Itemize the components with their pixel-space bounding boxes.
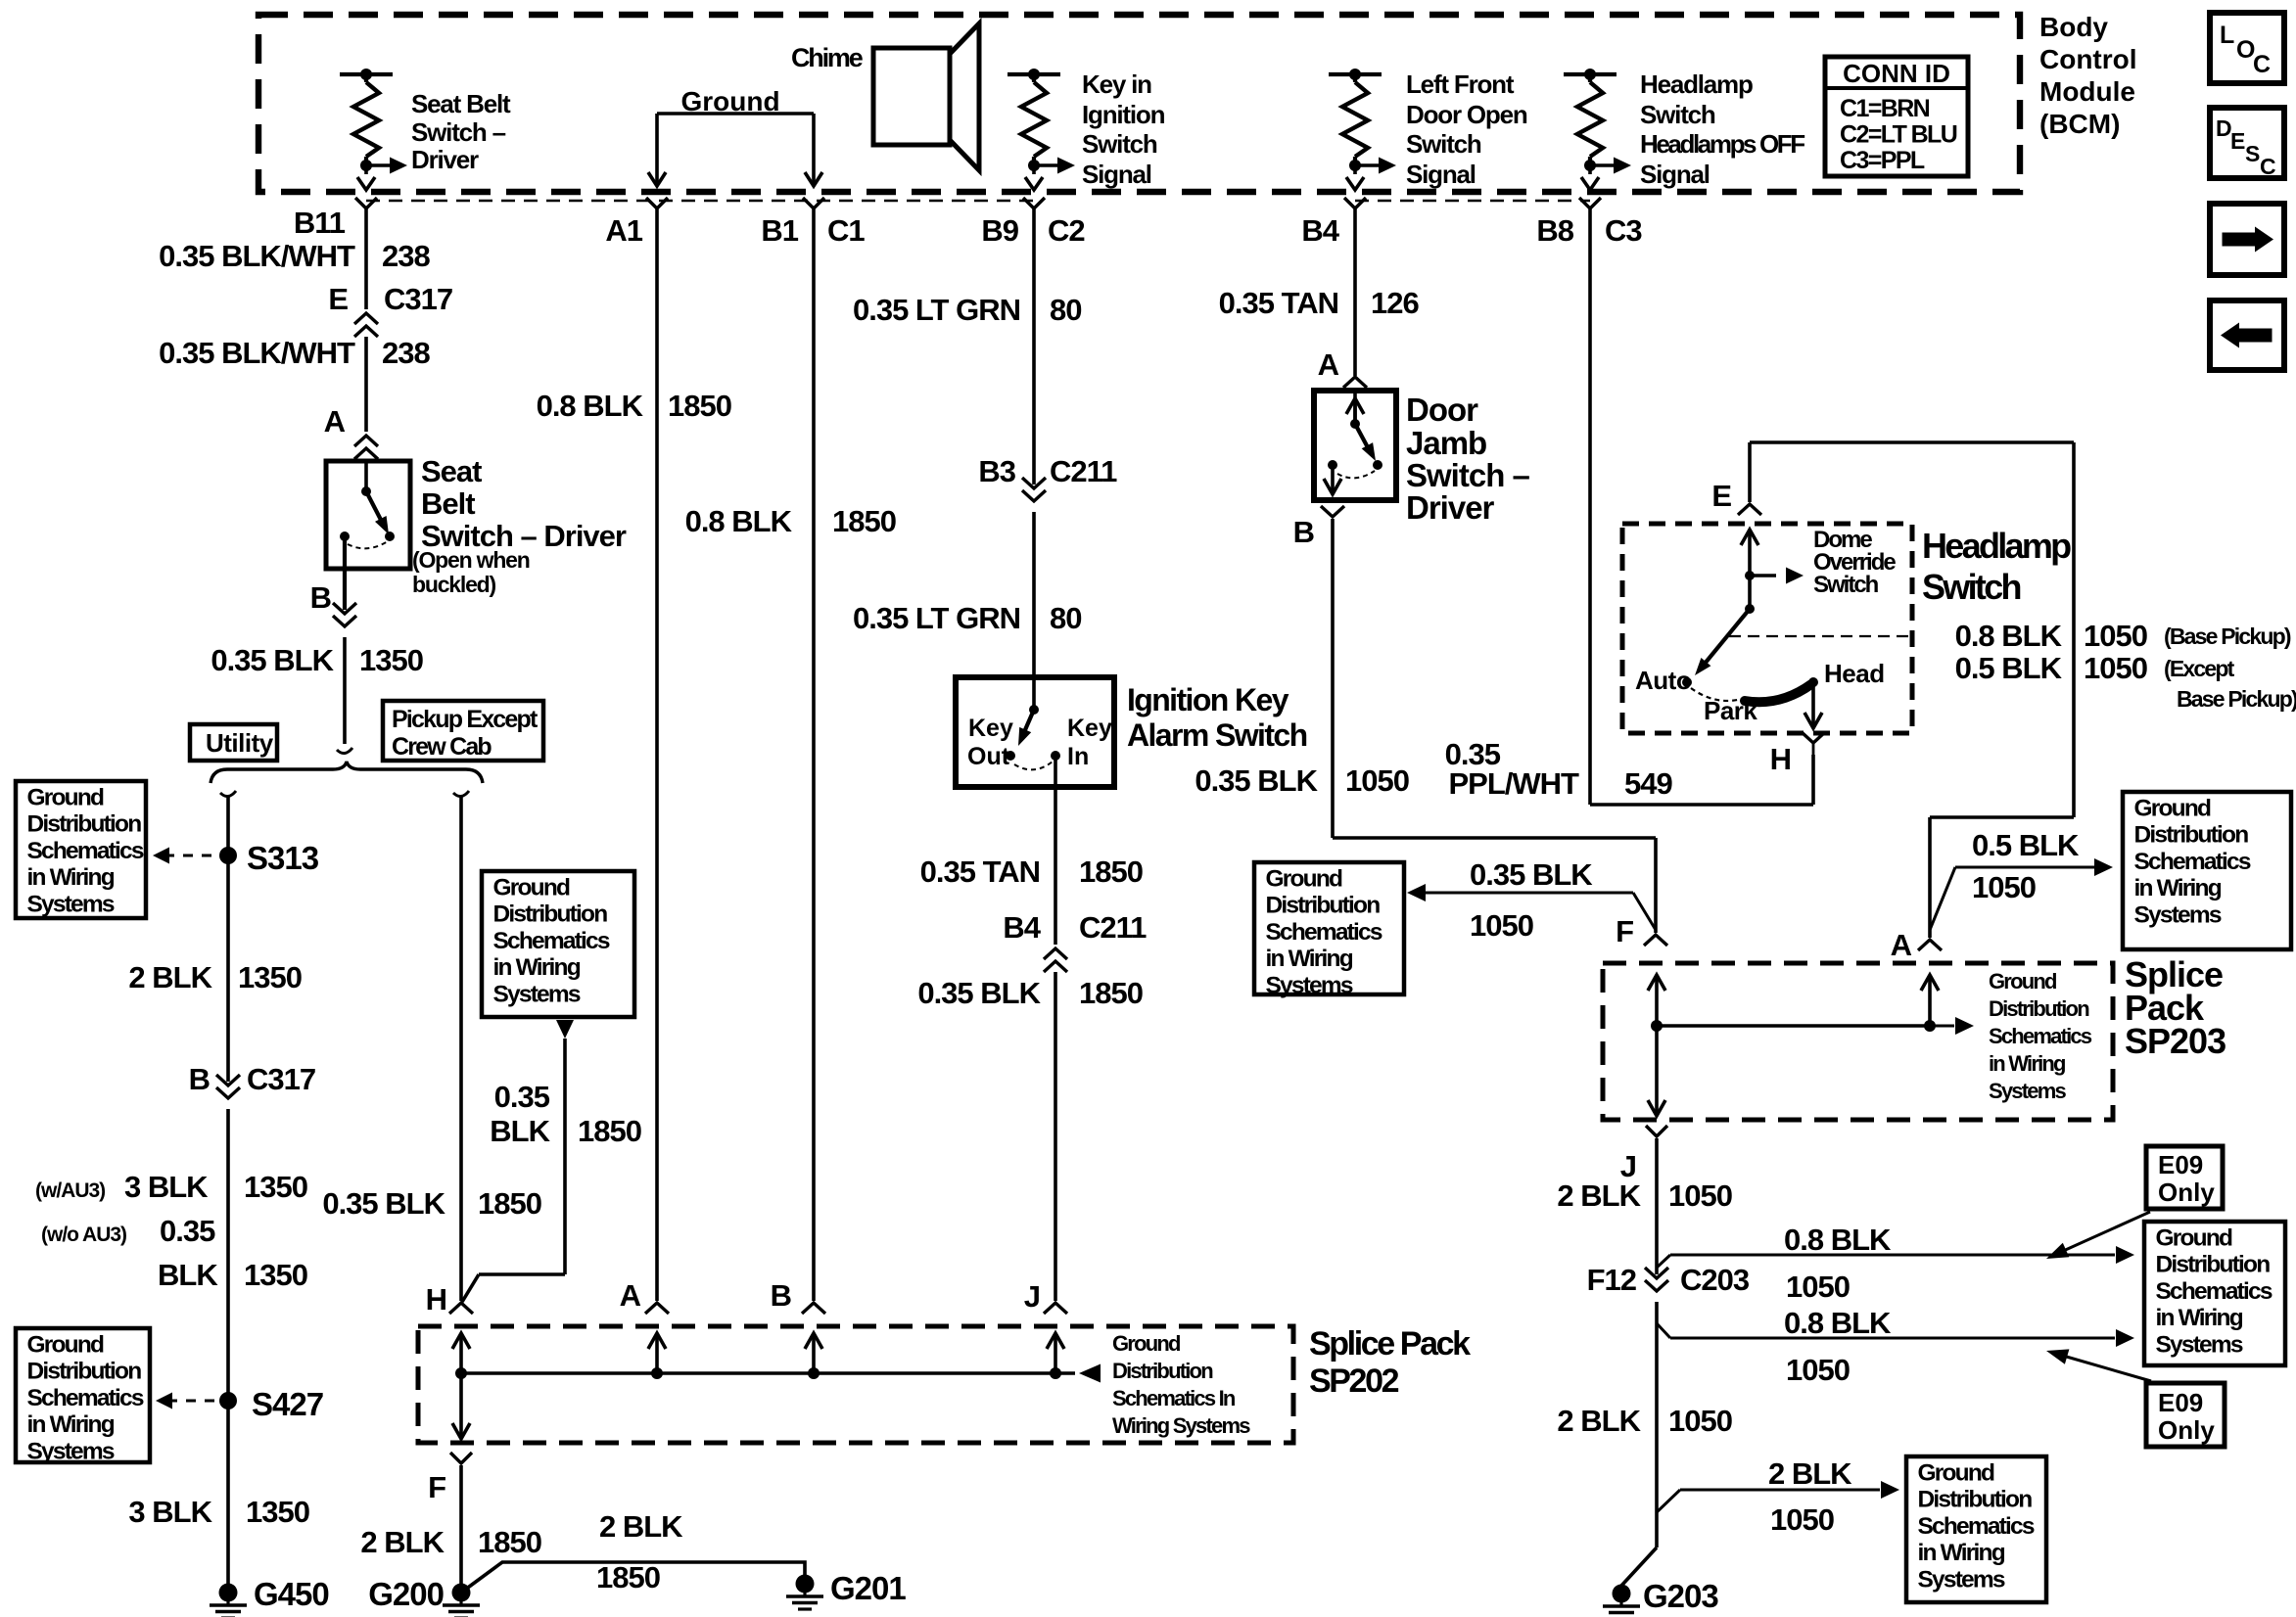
svg-text:E09: E09 <box>2158 1388 2203 1417</box>
E09 Only tag box (upper) <box>2146 1146 2223 1209</box>
SP202 pin H connector chevron <box>449 1303 473 1314</box>
svg-text:E: E <box>328 282 348 316</box>
svg-text:A1: A1 <box>605 213 642 248</box>
E09 Only tag box (lower) <box>2146 1383 2225 1447</box>
svg-text:Distribution: Distribution <box>1112 1359 1213 1383</box>
svg-text:Control: Control <box>2039 44 2137 74</box>
chime speaker symbol <box>873 48 950 145</box>
svg-text:2 BLK: 2 BLK <box>1557 1404 1641 1438</box>
svg-text:Signal: Signal <box>1082 160 1151 189</box>
svg-text:1350: 1350 <box>244 1170 307 1204</box>
svg-text:1050: 1050 <box>1786 1270 1850 1304</box>
svg-text:Switch: Switch <box>1082 129 1157 159</box>
ground G201 <box>796 1575 815 1594</box>
svg-text:Ground: Ground <box>1266 866 1342 893</box>
svg-text:SP203: SP203 <box>2125 1021 2226 1061</box>
headlamp pin E wire loop to SP203 A <box>1748 442 1752 502</box>
svg-text:C2=LT BLU: C2=LT BLU <box>1840 121 1957 149</box>
ground distribution schematics note box (1850 feed) <box>482 871 634 1017</box>
svg-text:1850: 1850 <box>478 1186 541 1221</box>
pin E connector chevron <box>1738 504 1761 515</box>
svg-text:C317: C317 <box>384 282 452 316</box>
C317-B connector chevrons <box>216 1075 240 1086</box>
svg-text:1050: 1050 <box>1668 1178 1732 1213</box>
svg-text:BLK: BLK <box>490 1114 550 1148</box>
ground distribution schematics note box (G203) <box>1906 1456 2046 1602</box>
svg-text:Schematics: Schematics <box>27 838 144 864</box>
svg-text:1850: 1850 <box>478 1525 541 1559</box>
branch brace <box>211 762 483 783</box>
svg-text:Systems: Systems <box>1989 1079 2066 1103</box>
svg-text:2 BLK: 2 BLK <box>1768 1456 1852 1491</box>
svg-text:in Wiring: in Wiring <box>1989 1051 2065 1076</box>
svg-text:F: F <box>1616 914 1633 948</box>
wire B11 to C317 <box>364 208 368 309</box>
svg-text:Switch: Switch <box>1640 100 1715 129</box>
svg-text:Switch: Switch <box>1406 129 1481 159</box>
BCM pin B1 connector chevron <box>803 198 824 208</box>
svg-text:Crew Cab: Crew Cab <box>392 733 492 761</box>
svg-text:Module: Module <box>2039 76 2135 107</box>
svg-text:2 BLK: 2 BLK <box>360 1525 445 1559</box>
ground G203 <box>1613 1585 1631 1603</box>
svg-text:0.35 LT GRN: 0.35 LT GRN <box>853 293 1020 327</box>
svg-text:Schematics In: Schematics In <box>1112 1386 1236 1410</box>
svg-text:E: E <box>2230 128 2245 154</box>
svg-text:0.5 BLK: 0.5 BLK <box>1972 828 2080 862</box>
svg-text:0.35 TAN: 0.35 TAN <box>920 855 1040 889</box>
svg-text:Only: Only <box>2158 1178 2215 1207</box>
svg-text:Door: Door <box>1406 392 1478 428</box>
svg-text:C203: C203 <box>1680 1263 1750 1297</box>
BCM pin B4 connector chevron <box>1344 198 1366 208</box>
headlamp switch internals <box>1748 531 1752 576</box>
splice S427 <box>219 1392 237 1409</box>
svg-text:1850: 1850 <box>832 504 896 538</box>
svg-text:in Wiring: in Wiring <box>27 864 115 891</box>
svg-text:Schematics: Schematics <box>1266 919 1382 946</box>
svg-text:C211: C211 <box>1079 910 1147 945</box>
svg-text:(BCM): (BCM) <box>2039 109 2120 139</box>
wire switch pin B <box>343 536 347 610</box>
svg-text:Schematics: Schematics <box>2134 849 2251 875</box>
svg-text:in Wiring: in Wiring <box>1918 1540 2005 1566</box>
BCM pin B8 connector chevron <box>1579 198 1601 208</box>
branch 0.5 BLK 1050 to ground distribution <box>1930 867 1955 930</box>
headlamp switch dashed box <box>1622 524 1912 733</box>
svg-text:(Except: (Except <box>2164 656 2235 681</box>
svg-text:Body: Body <box>2039 12 2108 42</box>
svg-text:2 BLK: 2 BLK <box>599 1509 683 1544</box>
wire G200 to G201 <box>461 1562 805 1593</box>
seat belt switch contacts <box>361 486 371 496</box>
S313 reference dashed arrow <box>164 855 219 857</box>
SP202 pin B connector chevron <box>802 1303 825 1314</box>
svg-text:E09: E09 <box>2158 1150 2203 1179</box>
svg-text:Jamb: Jamb <box>1406 425 1486 461</box>
svg-text:1050: 1050 <box>2084 619 2147 653</box>
svg-text:in Wiring: in Wiring <box>493 954 581 981</box>
svg-text:Distribution: Distribution <box>27 1359 142 1385</box>
svg-text:0.8 BLK: 0.8 BLK <box>685 504 793 538</box>
svg-text:G203: G203 <box>1643 1578 1718 1614</box>
resistor - Seat Belt Switch Driver signal <box>340 72 393 76</box>
svg-text:A: A <box>620 1278 641 1313</box>
SP202 pin J connector chevron <box>1044 1303 1067 1314</box>
svg-text:C211: C211 <box>1050 454 1117 488</box>
svg-text:C3=PPL: C3=PPL <box>1840 147 1925 174</box>
svg-text:in Wiring: in Wiring <box>1266 946 1353 972</box>
svg-text:B11: B11 <box>294 206 346 240</box>
svg-text:Base Pickup): Base Pickup) <box>2177 686 2296 712</box>
svg-text:Chime: Chime <box>791 43 864 72</box>
resistor - Key in Ignition Switch Signal <box>1007 72 1060 76</box>
svg-text:2 BLK: 2 BLK <box>1557 1178 1641 1213</box>
svg-text:A: A <box>1318 347 1339 382</box>
svg-text:Ground: Ground <box>2156 1225 2232 1252</box>
svg-text:Distribution: Distribution <box>1989 996 2089 1021</box>
svg-text:1050: 1050 <box>1786 1353 1850 1387</box>
svg-text:Splice Pack: Splice Pack <box>1309 1325 1471 1363</box>
svg-text:Ground: Ground <box>493 875 570 901</box>
door jamb pin A connector chevron <box>1343 377 1367 388</box>
svg-text:Only: Only <box>2158 1415 2215 1445</box>
svg-text:C2: C2 <box>1048 213 1085 248</box>
svg-text:Schematics: Schematics <box>27 1385 144 1411</box>
svg-text:0.35 TAN: 0.35 TAN <box>1219 286 1338 320</box>
BCM pin B9 connector chevron <box>1023 198 1045 208</box>
svg-text:0.35 BLK/WHT: 0.35 BLK/WHT <box>159 239 355 273</box>
LOC legend box <box>2210 13 2284 83</box>
svg-text:1050: 1050 <box>2084 651 2147 685</box>
svg-text:Ignition Key: Ignition Key <box>1127 682 1289 717</box>
svg-text:H: H <box>1770 742 1791 776</box>
svg-text:1850: 1850 <box>1079 855 1143 889</box>
svg-text:C: C <box>2260 154 2276 179</box>
SP203 pin J connector chevron <box>1646 1126 1667 1136</box>
svg-text:E: E <box>1711 479 1731 513</box>
SP203 internal bus <box>1657 1024 1930 1028</box>
wire S313 to C317-B <box>226 855 230 1082</box>
note box feed arrowhead <box>556 1020 574 1039</box>
wire S427 to G450 <box>226 1401 230 1593</box>
svg-text:238: 238 <box>382 336 430 370</box>
wire A1 to SP202 <box>655 208 659 1301</box>
wire B to branch squiggle <box>343 637 347 744</box>
svg-text:Belt: Belt <box>421 486 475 521</box>
svg-text:S: S <box>2245 141 2260 166</box>
svg-text:BLK: BLK <box>158 1258 218 1292</box>
svg-text:Utility: Utility <box>206 728 274 758</box>
wire C317-B to S427 <box>226 1109 230 1401</box>
svg-text:3 BLK: 3 BLK <box>128 1495 212 1529</box>
CONN ID table <box>1825 57 1968 176</box>
svg-text:0.8 BLK: 0.8 BLK <box>1784 1223 1892 1257</box>
svg-text:1050: 1050 <box>1770 1502 1834 1537</box>
svg-text:H: H <box>426 1282 446 1317</box>
wire C317 to A <box>364 337 368 432</box>
svg-text:SP202: SP202 <box>1309 1363 1399 1400</box>
E09 lower reference arrow <box>2063 1356 2151 1381</box>
svg-text:Signal: Signal <box>1406 160 1476 189</box>
SP203 pin A connector chevron <box>1918 940 1942 950</box>
wire door jamb B to SP203 F <box>1331 519 1335 838</box>
ground distribution schematics note box (S427) <box>16 1328 150 1462</box>
door jamb pin B connector chevron <box>1321 506 1344 517</box>
ground G450 <box>219 1584 238 1602</box>
ground distribution schematics note box (E09) <box>2144 1222 2285 1365</box>
svg-text:C1=BRN: C1=BRN <box>1840 95 1930 122</box>
svg-text:C3: C3 <box>1605 213 1642 248</box>
svg-text:Ground: Ground <box>1918 1460 1994 1487</box>
svg-text:B: B <box>310 580 331 615</box>
C211-B3 connector chevrons <box>1022 478 1046 488</box>
svg-text:0.8 BLK: 0.8 BLK <box>1784 1306 1892 1340</box>
svg-text:Ignition: Ignition <box>1082 100 1165 129</box>
svg-text:0.8 BLK: 0.8 BLK <box>537 389 644 423</box>
BCM pin B11 connector chevron <box>355 198 377 208</box>
svg-text:Pickup Except: Pickup Except <box>392 706 539 733</box>
C211-B4 connector chevrons <box>1044 948 1067 959</box>
svg-text:Headlamp: Headlamp <box>1640 69 1753 99</box>
svg-text:Headlamp: Headlamp <box>1922 526 2071 566</box>
svg-text:(Base Pickup): (Base Pickup) <box>2164 624 2291 649</box>
svg-text:In: In <box>1067 743 1089 770</box>
svg-text:Alarm Switch: Alarm Switch <box>1127 717 1307 753</box>
svg-text:1850: 1850 <box>668 389 731 423</box>
svg-text:CONN ID: CONN ID <box>1843 59 1950 88</box>
svg-text:A: A <box>324 404 346 439</box>
wire B9 to C211 <box>1032 208 1036 485</box>
svg-text:1850: 1850 <box>1079 976 1143 1010</box>
svg-text:Distribution: Distribution <box>493 901 608 928</box>
svg-text:(Open when: (Open when <box>412 547 530 573</box>
svg-text:(w/AU3): (w/AU3) <box>35 1179 105 1202</box>
svg-text:Switch: Switch <box>1813 572 1879 598</box>
svg-text:Systems: Systems <box>27 891 115 917</box>
splice pack SP203 dashed box <box>1603 963 2113 1120</box>
svg-text:Seat Belt: Seat Belt <box>411 89 511 118</box>
svg-text:B: B <box>1293 515 1314 549</box>
BCM connector parting line C1/C2 <box>366 200 1035 203</box>
svg-text:PPL/WHT: PPL/WHT <box>1449 766 1580 801</box>
svg-text:L: L <box>2220 22 2234 49</box>
BCM pin A1 connector chevron <box>646 198 668 208</box>
pin H connector chevron <box>1802 732 1825 743</box>
svg-text:Distribution: Distribution <box>1266 893 1381 919</box>
E09 upper reference arrow <box>2061 1212 2150 1252</box>
svg-text:Distribution: Distribution <box>1918 1487 2033 1513</box>
svg-text:S427: S427 <box>252 1386 323 1422</box>
wire B8/C3 to headlamp switch H <box>1588 208 1592 805</box>
svg-text:Left Front: Left Front <box>1406 69 1515 99</box>
svg-text:0.35 BLK/WHT: 0.35 BLK/WHT <box>159 336 355 370</box>
svg-text:Schematics: Schematics <box>2156 1278 2273 1305</box>
wire B1 to SP202 <box>812 208 816 1301</box>
svg-text:1050: 1050 <box>1345 763 1409 798</box>
svg-text:3 BLK: 3 BLK <box>124 1170 209 1204</box>
wire J to C203 <box>1655 1138 1659 1274</box>
wire brace to H <box>459 795 463 1301</box>
utility branch squiggle <box>220 791 236 797</box>
ground return wire bracket A1-B1 <box>657 112 814 115</box>
svg-text:C1: C1 <box>827 213 865 248</box>
svg-text:Key in: Key in <box>1082 69 1151 99</box>
svg-text:1350: 1350 <box>238 960 302 994</box>
svg-text:0.35 BLK: 0.35 BLK <box>917 976 1041 1010</box>
SP203 reference arrow 0.35 BLK 1050 <box>1413 892 1633 895</box>
svg-text:Schematics: Schematics <box>1918 1513 2035 1540</box>
headlamp switch inner dashed divider <box>1729 635 1912 637</box>
svg-text:buckled): buckled) <box>412 572 496 597</box>
S427 reference dashed arrow <box>167 1400 219 1403</box>
pin B connector chevrons <box>333 603 356 614</box>
svg-text:Systems: Systems <box>27 1438 115 1464</box>
splice S313 <box>219 847 237 864</box>
ground distribution schematics note box (S313) <box>16 781 146 918</box>
wire C211-B4 to SP202 J <box>1054 972 1057 1301</box>
wire 1850 from note box <box>563 1039 567 1274</box>
svg-text:G201: G201 <box>830 1570 906 1606</box>
svg-text:(w/o AU3): (w/o AU3) <box>41 1224 126 1246</box>
svg-text:Ground: Ground <box>27 785 104 811</box>
svg-text:Switch –: Switch – <box>411 117 506 147</box>
svg-text:J: J <box>1024 1279 1040 1314</box>
ignition key alarm switch box <box>956 677 1114 787</box>
svg-text:B4: B4 <box>1301 213 1339 248</box>
svg-text:A: A <box>1891 928 1912 962</box>
svg-text:C317: C317 <box>247 1062 315 1096</box>
resistor - Headlamp Switch Headlamps OFF Signal <box>1564 72 1617 76</box>
DESC legend box <box>2210 108 2284 178</box>
branch 2 BLK 1050 to note box <box>1657 1490 1680 1512</box>
svg-text:0.5 BLK: 0.5 BLK <box>1955 651 2063 685</box>
svg-text:2 BLK: 2 BLK <box>128 960 212 994</box>
wire C203 to G203 <box>1655 1302 1659 1548</box>
svg-text:Signal: Signal <box>1640 160 1710 189</box>
svg-text:Key: Key <box>1067 715 1112 742</box>
Utility tag box <box>190 724 277 761</box>
SP202 pin A connector chevron <box>645 1303 669 1314</box>
svg-text:F12: F12 <box>1587 1263 1636 1297</box>
wire A to switch <box>364 459 368 491</box>
svg-text:Door Open: Door Open <box>1406 100 1527 129</box>
SP202 internal bus <box>461 1371 1075 1375</box>
svg-text:Auto: Auto <box>1635 666 1691 695</box>
svg-text:0.35 LT GRN: 0.35 LT GRN <box>853 601 1020 635</box>
BCM connector parting line C3 <box>1355 200 1590 203</box>
door jamb switch box <box>1314 391 1396 500</box>
seat belt switch box <box>326 461 410 569</box>
svg-text:C: C <box>2253 51 2271 78</box>
ground distribution schematics note box (door jamb) <box>1254 862 1404 994</box>
svg-text:Switch –: Switch – <box>1406 457 1530 493</box>
pickup branch squiggle <box>453 791 469 797</box>
svg-text:1050: 1050 <box>1470 908 1533 943</box>
svg-text:0.35 BLK: 0.35 BLK <box>1195 763 1318 798</box>
svg-text:B1: B1 <box>761 213 798 248</box>
resistor - Left Front Door Open Switch Signal <box>1329 72 1382 76</box>
back arrow legend box <box>2210 300 2284 370</box>
svg-text:1050: 1050 <box>1972 870 2036 904</box>
Pickup Except Crew Cab tag box <box>383 701 543 761</box>
wire B4 to door jamb switch <box>1353 208 1357 376</box>
svg-text:Systems: Systems <box>1918 1566 2005 1593</box>
wire Key In to C211-B4 <box>1054 756 1057 945</box>
wire C211 to alarm switch <box>1032 512 1036 710</box>
svg-text:Park: Park <box>1704 696 1757 725</box>
svg-text:B: B <box>189 1062 210 1096</box>
svg-text:1350: 1350 <box>244 1258 307 1292</box>
ground G200 <box>452 1584 471 1602</box>
branch 0.8 BLK 1050 to E09 (lower) <box>1657 1323 1670 1338</box>
SP202 pin F connector chevron <box>450 1453 472 1463</box>
svg-text:Driver: Driver <box>411 145 479 174</box>
svg-text:in Wiring: in Wiring <box>27 1411 115 1438</box>
svg-text:Ground: Ground <box>2134 796 2211 822</box>
svg-text:in Wiring: in Wiring <box>2156 1305 2243 1331</box>
svg-text:Head: Head <box>1824 659 1885 688</box>
svg-text:B8: B8 <box>1536 213 1573 248</box>
svg-text:B4: B4 <box>1003 910 1041 945</box>
svg-text:Ground: Ground <box>27 1332 104 1359</box>
svg-text:Wiring Systems: Wiring Systems <box>1112 1413 1250 1438</box>
wire end squiggle <box>337 748 352 754</box>
svg-text:Out: Out <box>967 743 1010 770</box>
svg-text:Driver: Driver <box>1406 489 1495 526</box>
svg-text:B: B <box>771 1278 791 1313</box>
pin A connector chevrons <box>354 436 378 446</box>
svg-text:0.35 BLK: 0.35 BLK <box>322 1186 445 1221</box>
svg-text:1850: 1850 <box>596 1560 660 1594</box>
ignition key alarm switch contacts <box>1029 705 1039 715</box>
forward arrow legend box <box>2210 204 2284 275</box>
svg-text:80: 80 <box>1050 601 1081 635</box>
svg-text:Headlamps OFF: Headlamps OFF <box>1640 129 1804 159</box>
C203-F12 connector chevrons <box>1645 1268 1668 1278</box>
ground distribution schematics note box (0.5 BLK) <box>2123 792 2291 949</box>
svg-text:Distribution: Distribution <box>27 811 142 838</box>
svg-text:B9: B9 <box>981 213 1018 248</box>
svg-text:0.35 BLK: 0.35 BLK <box>211 643 334 677</box>
branch 0.8 BLK 1050 to E09 (upper) <box>1657 1255 1670 1268</box>
svg-text:G200: G200 <box>368 1576 444 1612</box>
svg-text:Systems: Systems <box>493 981 581 1007</box>
svg-text:1050: 1050 <box>1668 1404 1732 1438</box>
svg-text:1350: 1350 <box>359 643 423 677</box>
svg-text:B3: B3 <box>978 454 1015 488</box>
svg-text:Systems: Systems <box>2134 901 2222 928</box>
svg-text:in Wiring: in Wiring <box>2134 875 2222 901</box>
svg-text:Schematics: Schematics <box>1989 1024 2092 1048</box>
svg-text:1350: 1350 <box>246 1495 309 1529</box>
svg-text:F: F <box>428 1470 445 1504</box>
svg-text:Systems: Systems <box>2156 1331 2243 1358</box>
door jamb switch contacts <box>1350 419 1360 429</box>
Body Control Module (BCM) dashed enclosure <box>258 15 2020 192</box>
svg-text:S313: S313 <box>247 840 319 876</box>
svg-text:549: 549 <box>1624 766 1672 801</box>
wire F to G200 <box>459 1465 463 1593</box>
splice pack SP202 dashed box <box>418 1326 1293 1443</box>
svg-text:0.8 BLK: 0.8 BLK <box>1955 619 2063 653</box>
svg-text:126: 126 <box>1371 286 1419 320</box>
svg-text:0.35 BLK: 0.35 BLK <box>1470 857 1593 892</box>
svg-text:Distribution: Distribution <box>2134 822 2249 849</box>
svg-text:0.35: 0.35 <box>160 1214 215 1248</box>
svg-text:Ground: Ground <box>1112 1331 1180 1356</box>
svg-text:Seat: Seat <box>421 454 482 488</box>
